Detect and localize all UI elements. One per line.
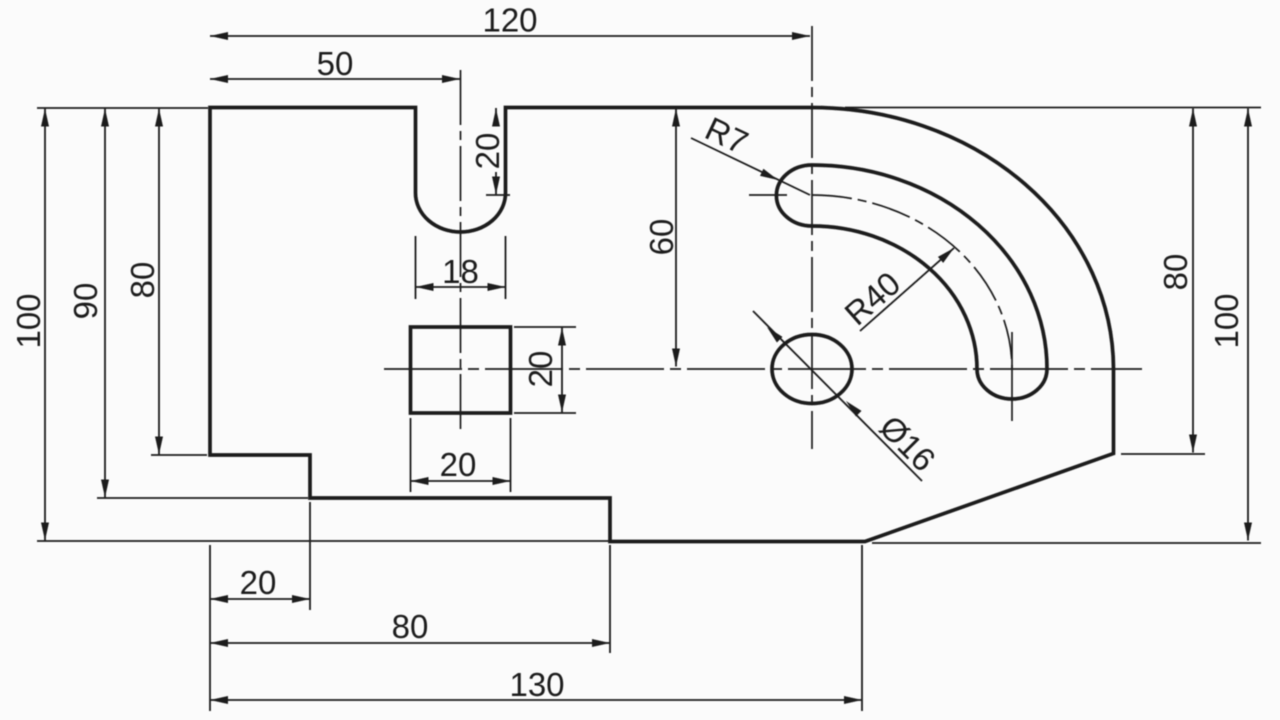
dimension text right 100 bbox=[1208, 293, 1245, 348]
svg-text:20: 20 bbox=[522, 351, 559, 388]
dimension text 60 bbox=[643, 219, 680, 256]
square cutout 20x20 bbox=[411, 327, 511, 413]
dimension left 90 bbox=[101, 109, 109, 498]
svg-text:100: 100 bbox=[1208, 293, 1245, 348]
vertical centerline notch and square bbox=[460, 70, 462, 434]
vertical centerline hole bbox=[811, 26, 813, 449]
extension line x610 bbox=[609, 545, 611, 653]
svg-text:20: 20 bbox=[240, 564, 277, 601]
svg-text:R7: R7 bbox=[700, 110, 754, 162]
svg-text:Ø16: Ø16 bbox=[873, 408, 943, 478]
extension line x310 bbox=[309, 502, 311, 610]
leader text R40 bbox=[837, 264, 907, 332]
extension lines square vertical 20 bbox=[514, 327, 576, 413]
dimension left 80 bbox=[155, 109, 163, 455]
dimension 60 bbox=[672, 109, 680, 367]
dimension text left 80 bbox=[124, 262, 161, 299]
curved slot R40 width 14 bbox=[776, 165, 1047, 399]
leader Ø16 bbox=[753, 311, 922, 481]
extension line x862 bbox=[861, 545, 863, 711]
dimension right 80 bbox=[1189, 109, 1197, 453]
dimension text left 100 bbox=[10, 293, 47, 348]
extension line bottom right bbox=[872, 542, 1261, 544]
svg-text:80: 80 bbox=[1157, 254, 1194, 291]
leader R7 bbox=[691, 138, 810, 195]
svg-text:80: 80 bbox=[124, 262, 161, 299]
dimension bottom 130 bbox=[210, 696, 862, 704]
svg-text:60: 60 bbox=[643, 219, 680, 256]
dimension notch depth 20 bbox=[492, 108, 500, 195]
dimension 120 bbox=[210, 32, 810, 40]
svg-text:100: 100 bbox=[10, 293, 47, 348]
slot centerline arc R40 bbox=[812, 195, 1012, 369]
extension line top left bbox=[37, 107, 208, 109]
extension line x210 bottom bbox=[209, 545, 211, 711]
dimension text left 90 bbox=[67, 283, 104, 320]
dimension 50 bbox=[210, 75, 460, 83]
svg-text:R40: R40 bbox=[837, 264, 907, 332]
hole Ø16 bbox=[772, 335, 852, 404]
extension lines square horizontal 20 bbox=[411, 418, 511, 492]
svg-text:130: 130 bbox=[509, 666, 564, 703]
extension line right corner 80 bbox=[1121, 453, 1205, 455]
svg-text:90: 90 bbox=[67, 283, 104, 320]
dimension text square height 20 bbox=[522, 351, 559, 388]
extension line left step 80 bbox=[151, 454, 207, 456]
svg-text:50: 50 bbox=[317, 45, 354, 82]
svg-text:18: 18 bbox=[442, 253, 479, 290]
dimension bottom 20 bbox=[210, 595, 310, 603]
extension lines notch 18 bbox=[416, 236, 506, 299]
leader text R7 bbox=[700, 110, 754, 162]
extension line notch depth 20 bbox=[486, 194, 510, 196]
dimension 18 bbox=[416, 283, 506, 291]
svg-text:20: 20 bbox=[469, 133, 506, 170]
dimension bottom 80 bbox=[210, 639, 610, 647]
svg-text:120: 120 bbox=[482, 2, 537, 39]
dimension square height 20 bbox=[558, 328, 566, 413]
slot bottom cap centerline tick bbox=[1011, 332, 1013, 421]
extension line bottom left bbox=[37, 540, 610, 542]
dimension right 100 bbox=[1244, 109, 1252, 541]
dimension square width 20 bbox=[411, 477, 511, 485]
dimension text right 80 bbox=[1157, 254, 1194, 291]
dimension text notch 20 bbox=[469, 133, 506, 170]
horizontal centerline bbox=[384, 368, 1142, 370]
leader text Ø16 bbox=[873, 408, 943, 478]
part outline bbox=[210, 108, 1114, 542]
svg-text:80: 80 bbox=[392, 608, 429, 645]
dimension left 100 bbox=[41, 109, 49, 541]
svg-text:20: 20 bbox=[440, 446, 477, 483]
slot top cap centerline tick bbox=[749, 194, 787, 196]
leader R40 bbox=[860, 248, 954, 331]
extension line left step 90 bbox=[97, 497, 308, 499]
extension line top right bbox=[845, 107, 1261, 109]
